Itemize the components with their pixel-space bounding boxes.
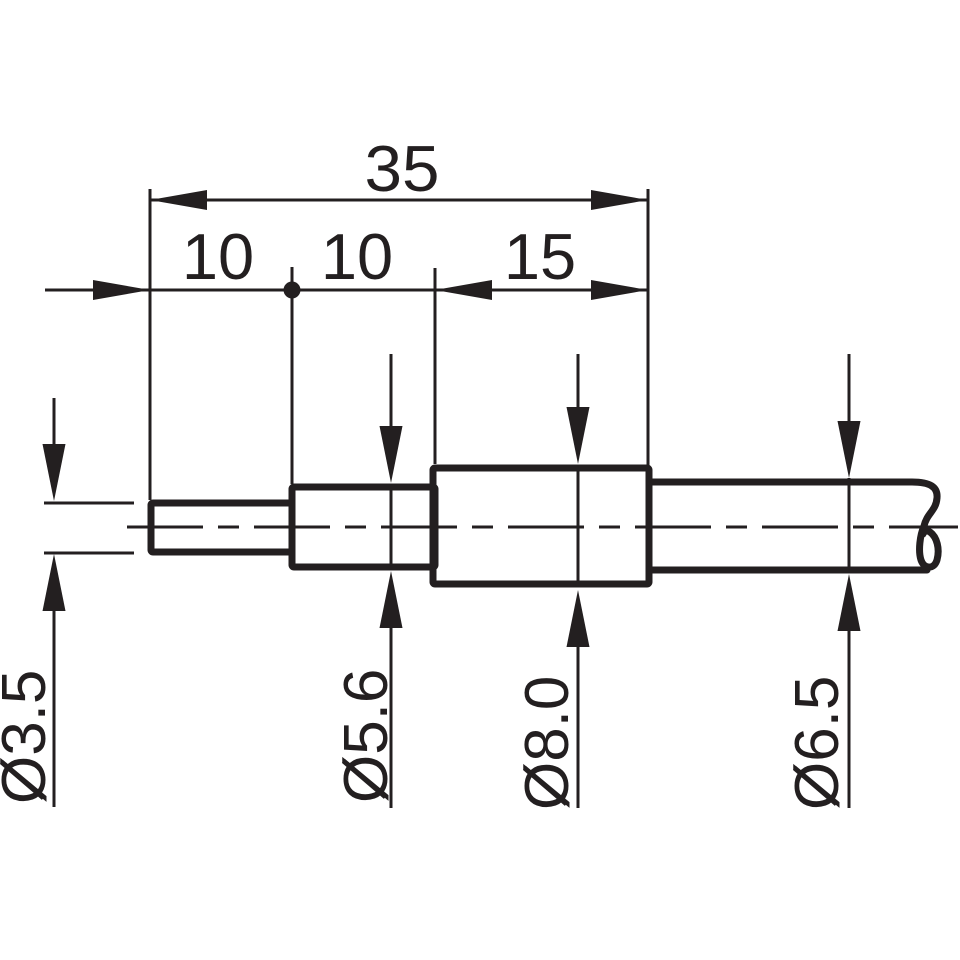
svg-text:35: 35	[365, 132, 440, 205]
svg-text:10: 10	[321, 220, 393, 293]
svg-text:15: 15	[504, 220, 576, 293]
svg-text:10: 10	[182, 220, 254, 293]
